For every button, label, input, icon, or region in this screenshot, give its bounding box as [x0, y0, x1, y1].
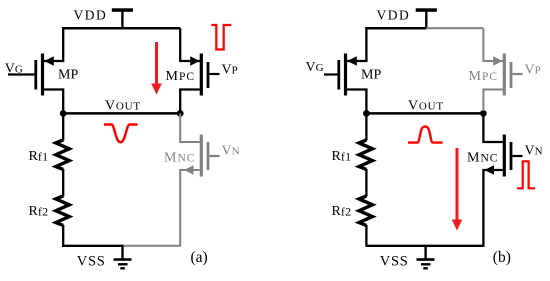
svg-text:MNC: MNC — [467, 151, 498, 166]
wire MNC source-to-bottom (b) — [366, 170, 503, 246]
wire VP gate lead (a) — [210, 73, 220, 75]
wire node-to-Rf1 (a) — [62, 113, 64, 140]
wire VOUT (a) — [63, 112, 180, 115]
wire MPC drain-to-node (b) gray — [483, 90, 502, 112]
svg-text:MPC: MPC — [166, 69, 196, 84]
svg-text:Rf2: Rf2 — [29, 204, 49, 219]
red current arrow (b) — [452, 148, 463, 231]
node left VOUT (a) — [60, 110, 67, 117]
wire Rf1-to-Rf2 (a) — [62, 169, 64, 197]
wire VOUT (b) — [366, 112, 483, 115]
wire VP gate lead (b) gray — [513, 73, 523, 75]
svg-text:VOUT: VOUT — [105, 99, 141, 114]
waveform dip at VOUT (a) — [104, 125, 138, 143]
ground symbol (a) — [114, 246, 132, 270]
waveform pulse at VP (a) — [211, 25, 231, 50]
svg-text:VSS: VSS — [77, 254, 106, 270]
wire node-to-MNC drain (a) gray — [180, 113, 200, 142]
wire Rf2-to-bottom (a) — [63, 225, 123, 246]
transistor MPC (b) gray — [493, 54, 511, 96]
node right VOUT (a) — [177, 110, 184, 117]
svg-text:(b): (b) — [493, 249, 511, 266]
wire MP source-to-node (b) — [347, 90, 366, 114]
svg-text:MPC: MPC — [469, 69, 499, 84]
red current arrow (a) — [151, 42, 162, 95]
svg-text:VP: VP — [222, 63, 238, 78]
svg-text:VDD: VDD — [74, 8, 108, 23]
wire node-to-MNC drain (b) — [483, 113, 502, 142]
waveform bump at VOUT (b) — [408, 127, 443, 143]
power symbol VDD (b) — [416, 8, 437, 29]
wire MPC drain-to-node (a) — [180, 90, 200, 114]
transistor MP (a) — [36, 54, 54, 96]
svg-text:MNC: MNC — [164, 151, 195, 166]
svg-text:VN: VN — [525, 144, 543, 159]
wire VG gate lead (b) — [324, 73, 337, 75]
svg-text:Rf1: Rf1 — [332, 149, 352, 164]
transistor MPC (a) — [190, 54, 208, 96]
waveform pulse at VN (b) — [517, 161, 535, 188]
ground symbol (b) — [417, 246, 435, 270]
resistor Rf1 (a) — [56, 140, 70, 169]
resistor Rf2 (b) — [359, 196, 373, 225]
wire VN gate lead (a) gray — [210, 155, 220, 157]
resistor Rf1 (b) — [359, 140, 373, 169]
svg-text:VG: VG — [306, 60, 324, 75]
power symbol VDD (a) — [112, 8, 133, 29]
wire top rail left black (b) — [365, 27, 426, 30]
svg-text:VP: VP — [525, 63, 541, 78]
wire MPC source-to-rail (b) gray — [483, 28, 502, 61]
svg-text:VDD: VDD — [377, 8, 411, 23]
svg-text:(a): (a) — [191, 249, 208, 266]
wire Rf2-to-bottom (b) — [365, 225, 367, 246]
svg-text:Rf2: Rf2 — [332, 204, 352, 219]
wire Rf1-to-Rf2 (b) — [365, 169, 367, 197]
wire VN gate lead (b) — [513, 155, 523, 157]
wire MNC source-to-bottom (a) gray — [123, 170, 200, 246]
svg-text:MP: MP — [361, 68, 381, 83]
svg-text:VOUT: VOUT — [408, 99, 444, 114]
node left VOUT (b) — [363, 110, 370, 117]
node right VOUT (b) — [480, 110, 487, 117]
transistor MNC (b) — [485, 135, 512, 177]
transistor MP (b) — [339, 54, 357, 96]
wire MP drain-to-rail (b) — [347, 28, 366, 61]
wire MP drain-to-rail (a) — [44, 28, 63, 61]
wire VG gate lead (a) — [8, 73, 34, 75]
wire MP source-to-node (a) — [44, 90, 63, 114]
svg-text:VN: VN — [222, 144, 240, 159]
resistor Rf2 (a) — [56, 196, 70, 225]
svg-text:MP: MP — [58, 68, 78, 83]
wire top rail (a) — [62, 27, 180, 30]
svg-text:VG: VG — [5, 61, 23, 76]
svg-text:Rf1: Rf1 — [29, 149, 49, 164]
transistor MNC (a) gray — [184, 135, 208, 177]
svg-text:VSS: VSS — [380, 254, 409, 270]
wire top rail right gray (b) — [426, 27, 483, 29]
wire MPC source-to-rail (a) — [180, 28, 200, 61]
wire node-to-Rf1 (b) — [365, 113, 367, 140]
